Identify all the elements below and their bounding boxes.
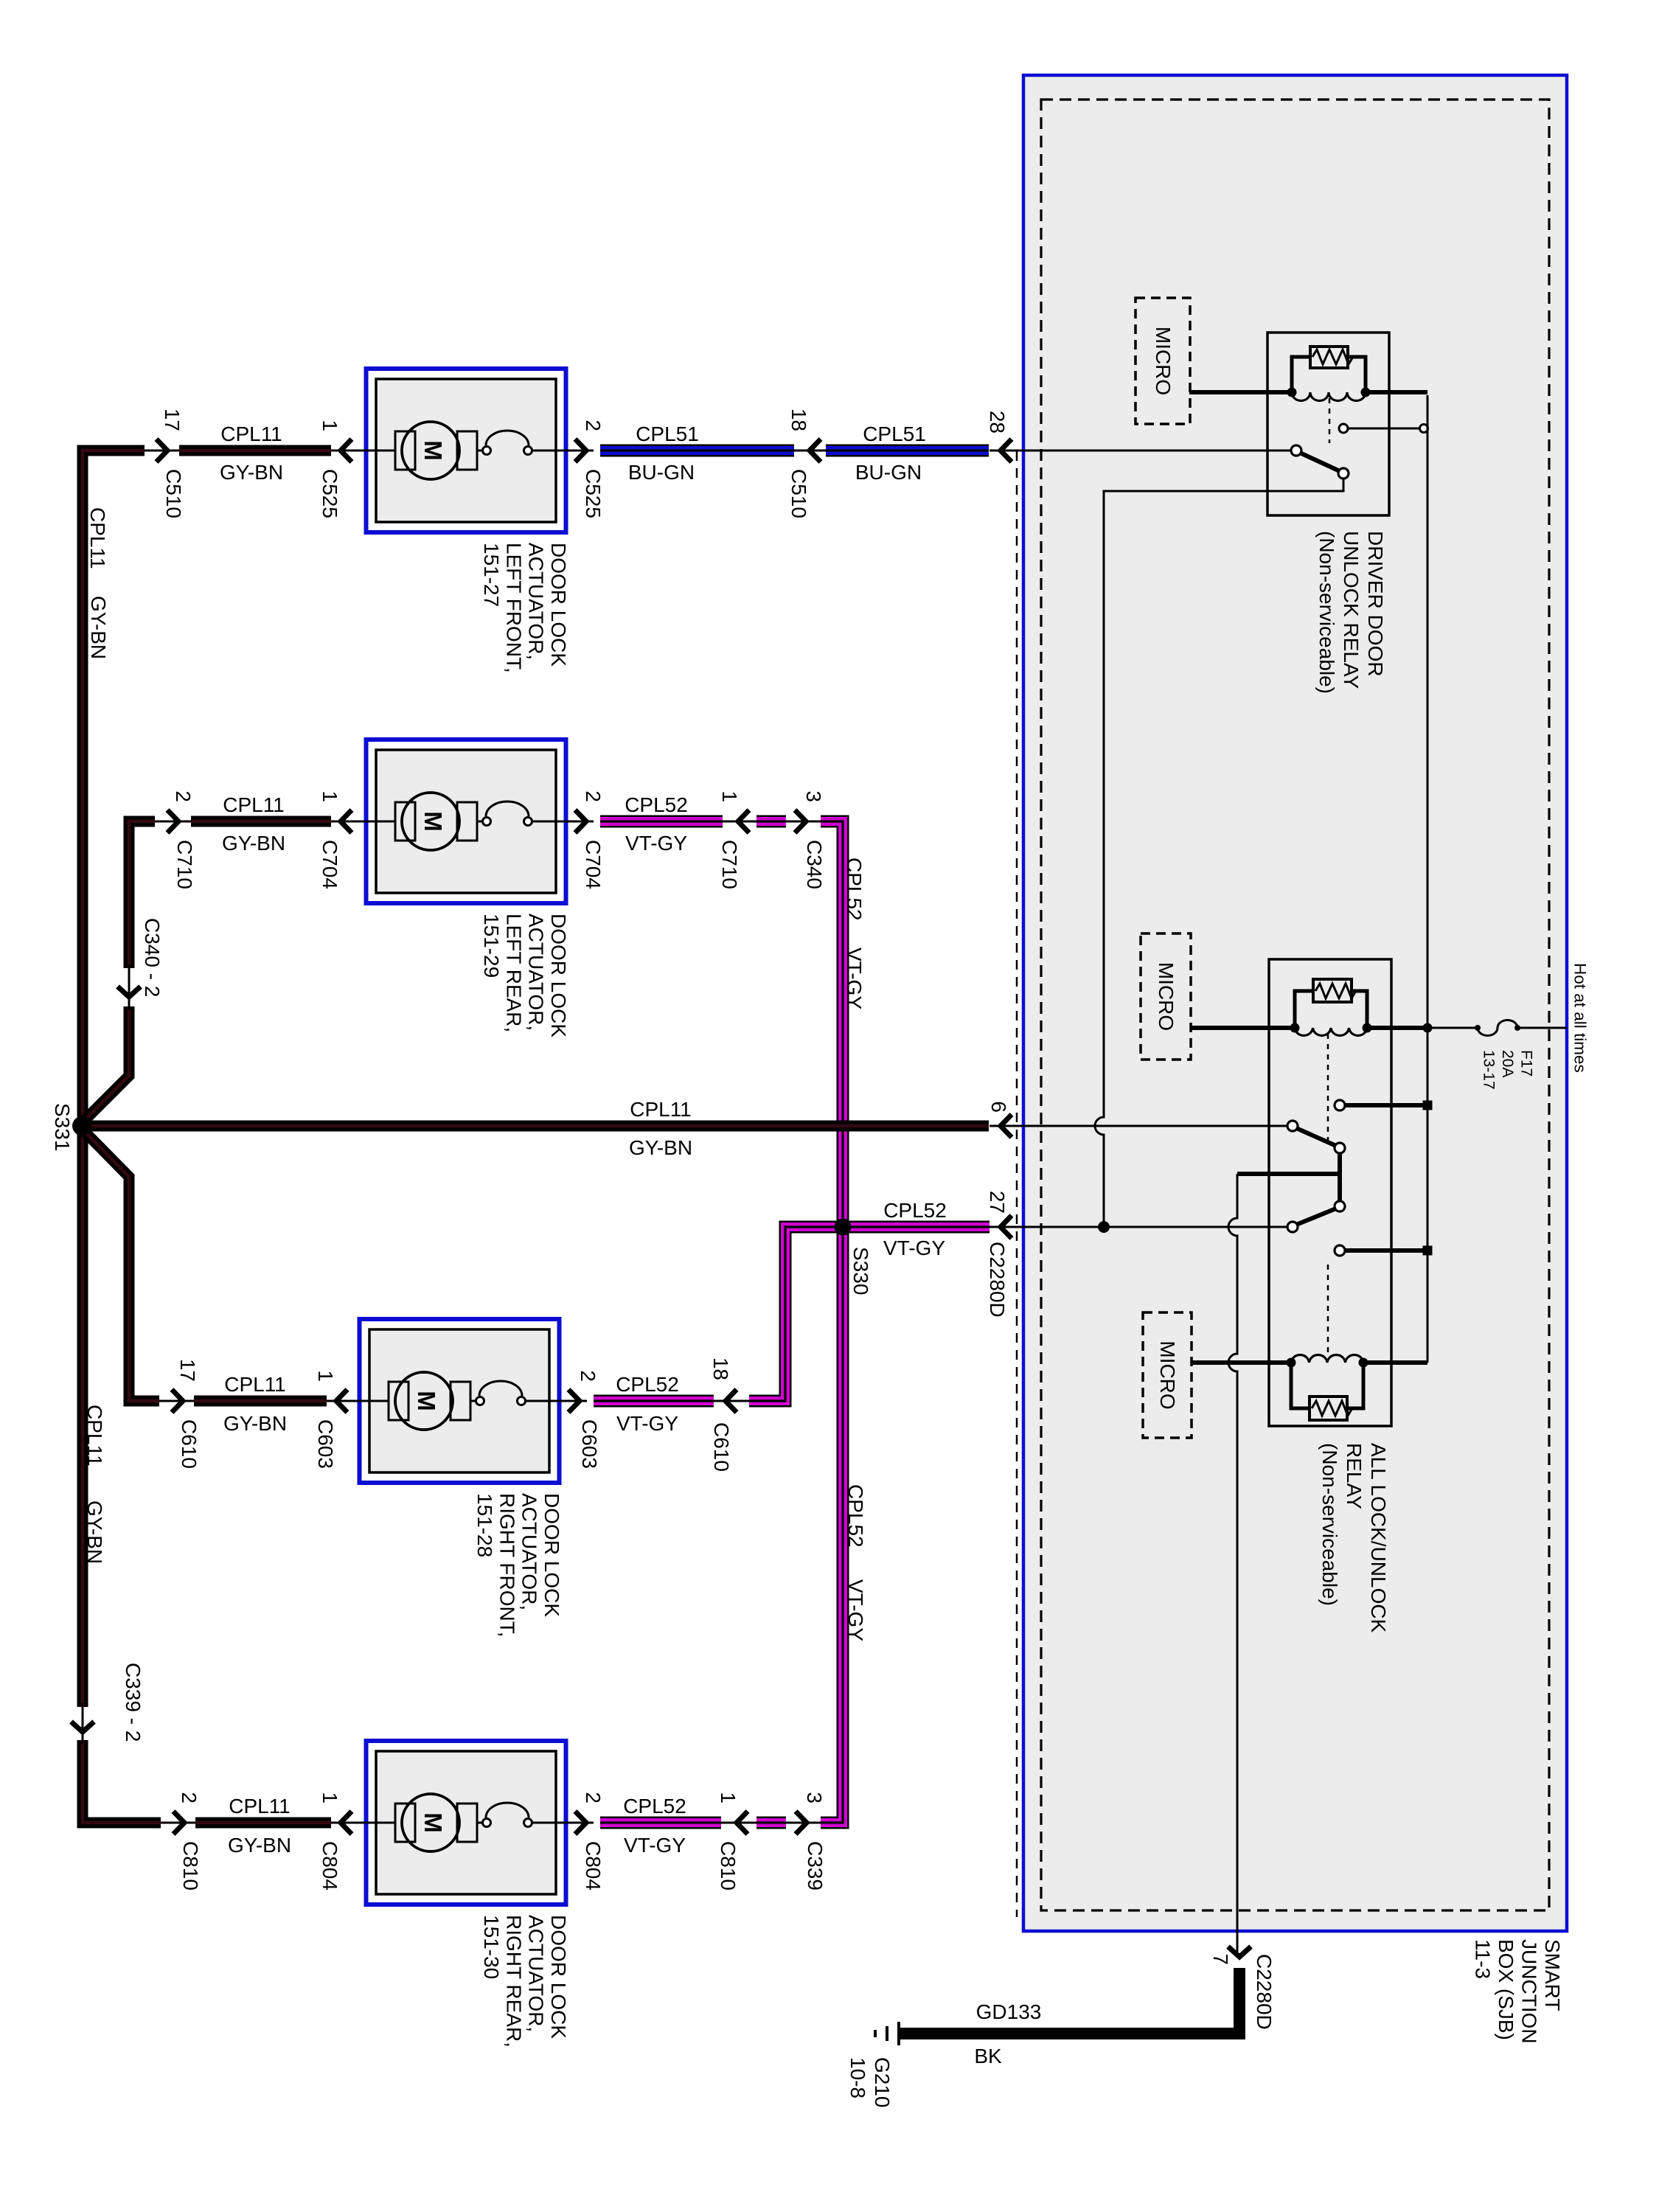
svg-text:VT-GY: VT-GY [843, 947, 866, 1009]
svg-text:LEFT FRONT,: LEFT FRONT, [502, 543, 525, 673]
svg-text:DOOR LOCK: DOOR LOCK [540, 1493, 563, 1617]
svg-text:ACTUATOR,: ACTUATOR, [518, 1493, 541, 1610]
svg-text:2: 2 [582, 790, 605, 802]
svg-text:VT-GY: VT-GY [625, 832, 687, 855]
svg-text:1: 1 [319, 420, 341, 431]
svg-text:SMART: SMART [1541, 1939, 1564, 2011]
svg-text:20A: 20A [1499, 1050, 1516, 1077]
svg-text:M: M [420, 440, 447, 461]
svg-text:VT-GY: VT-GY [616, 1412, 678, 1435]
svg-text:3: 3 [803, 1792, 826, 1804]
svg-text:C510: C510 [787, 469, 810, 518]
svg-text:C710: C710 [173, 840, 196, 889]
svg-text:C340: C340 [803, 840, 826, 889]
svg-text:C525: C525 [319, 469, 341, 518]
svg-text:DOOR LOCK: DOOR LOCK [547, 1915, 570, 2039]
svg-text:ACTUATOR,: ACTUATOR, [525, 914, 548, 1031]
svg-text:C804: C804 [582, 1841, 605, 1891]
svg-text:DOOR LOCK: DOOR LOCK [547, 914, 570, 1037]
svg-text:GD133: GD133 [976, 2000, 1042, 2023]
svg-text:CPL52: CPL52 [623, 1795, 686, 1818]
svg-text:C603: C603 [578, 1419, 601, 1469]
svg-text:VT-GY: VT-GY [844, 1579, 867, 1641]
svg-text:2: 2 [172, 790, 195, 802]
svg-text:1: 1 [319, 1792, 341, 1804]
svg-text:151-27: 151-27 [480, 543, 503, 607]
svg-text:DRIVER DOOR: DRIVER DOOR [1364, 531, 1387, 677]
svg-text:C2280D: C2280D [1253, 1954, 1276, 2030]
svg-text:C704: C704 [582, 840, 605, 889]
svg-text:LEFT REAR,: LEFT REAR, [502, 914, 525, 1032]
svg-text:CPL11: CPL11 [223, 793, 285, 816]
svg-text:C339 - 2: C339 - 2 [122, 1663, 145, 1742]
svg-text:CPL52: CPL52 [616, 1373, 679, 1396]
svg-text:2: 2 [178, 1792, 201, 1804]
svg-text:ACTUATOR,: ACTUATOR, [525, 543, 548, 660]
svg-text:CPL11: CPL11 [220, 422, 282, 445]
svg-text:S331: S331 [51, 1103, 74, 1151]
svg-text:BU-GN: BU-GN [628, 461, 695, 484]
svg-text:GY-BN: GY-BN [87, 596, 110, 659]
svg-text:151-30: 151-30 [480, 1915, 503, 1979]
svg-text:JUNCTION: JUNCTION [1518, 1939, 1541, 2044]
svg-text:C603: C603 [314, 1419, 337, 1469]
svg-text:ACTUATOR,: ACTUATOR, [525, 1915, 548, 2032]
svg-text:MICRO: MICRO [1156, 1340, 1179, 1409]
svg-text:VT-GY: VT-GY [624, 1834, 686, 1857]
svg-text:3: 3 [802, 790, 825, 802]
svg-text:GY-BN: GY-BN [222, 832, 285, 855]
svg-text:GY-BN: GY-BN [83, 1500, 106, 1564]
svg-text:C704: C704 [319, 840, 341, 889]
svg-text:(Non-serviceable): (Non-serviceable) [1315, 531, 1338, 694]
svg-text:MICRO: MICRO [1155, 962, 1178, 1031]
svg-text:2: 2 [582, 420, 605, 431]
svg-text:1: 1 [718, 790, 741, 802]
svg-text:F17: F17 [1518, 1050, 1535, 1077]
svg-text:11-3: 11-3 [1472, 1939, 1495, 1979]
svg-text:CPL52: CPL52 [625, 793, 688, 816]
svg-text:1: 1 [314, 1370, 337, 1382]
svg-text:27: 27 [986, 1191, 1009, 1214]
svg-text:C525: C525 [582, 469, 605, 518]
svg-text:18: 18 [787, 408, 810, 431]
svg-text:GY-BN: GY-BN [228, 1834, 291, 1857]
svg-text:GY-BN: GY-BN [220, 461, 283, 484]
svg-text:C2280D: C2280D [986, 1242, 1009, 1318]
svg-text:6: 6 [987, 1101, 1010, 1113]
svg-text:7: 7 [1209, 1953, 1232, 1965]
svg-text:ALL LOCK/UNLOCK: ALL LOCK/UNLOCK [1367, 1443, 1390, 1633]
svg-text:GY-BN: GY-BN [629, 1136, 692, 1159]
svg-text:UNLOCK RELAY: UNLOCK RELAY [1340, 531, 1363, 689]
svg-text:C340 - 2: C340 - 2 [141, 918, 164, 997]
svg-text:17: 17 [161, 408, 184, 431]
svg-text:C810: C810 [717, 1841, 740, 1891]
svg-text:C810: C810 [179, 1841, 202, 1891]
svg-text:CPL52: CPL52 [883, 1199, 947, 1222]
svg-text:M: M [420, 811, 447, 832]
svg-text:CPL52: CPL52 [844, 1484, 867, 1548]
svg-text:10-8: 10-8 [846, 2057, 869, 2098]
svg-text:CPL11: CPL11 [229, 1795, 291, 1818]
svg-text:1: 1 [319, 790, 341, 802]
svg-text:VT-GY: VT-GY [883, 1237, 945, 1259]
svg-text:13-17: 13-17 [1481, 1050, 1498, 1090]
svg-text:C510: C510 [162, 469, 185, 518]
svg-text:DOOR LOCK: DOOR LOCK [547, 543, 570, 667]
svg-text:Hot at all times: Hot at all times [1571, 963, 1590, 1073]
svg-text:BK: BK [974, 2045, 1002, 2067]
svg-text:18: 18 [709, 1357, 732, 1380]
svg-text:1: 1 [717, 1792, 740, 1804]
svg-text:C804: C804 [319, 1841, 341, 1891]
svg-text:28: 28 [986, 411, 1009, 434]
svg-text:S330: S330 [849, 1247, 872, 1295]
svg-text:C339: C339 [804, 1841, 827, 1891]
svg-text:GY-BN: GY-BN [223, 1412, 287, 1435]
svg-text:BOX (SJB): BOX (SJB) [1495, 1939, 1517, 2040]
svg-text:CPL51: CPL51 [636, 422, 699, 445]
svg-text:2: 2 [582, 1792, 605, 1804]
svg-text:CPL11: CPL11 [83, 1405, 106, 1467]
svg-text:C610: C610 [710, 1422, 733, 1472]
svg-text:RIGHT REAR,: RIGHT REAR, [502, 1915, 525, 2048]
svg-text:G210: G210 [871, 2057, 894, 2108]
svg-text:2: 2 [577, 1370, 599, 1382]
svg-text:(Non-serviceable): (Non-serviceable) [1318, 1443, 1341, 1606]
svg-text:M: M [413, 1391, 440, 1411]
svg-text:BU-GN: BU-GN [855, 461, 922, 484]
svg-text:CPL52: CPL52 [843, 858, 866, 921]
svg-text:MICRO: MICRO [1152, 327, 1175, 395]
svg-text:CPL11: CPL11 [630, 1098, 692, 1121]
svg-text:C610: C610 [178, 1419, 201, 1469]
svg-text:C710: C710 [718, 840, 741, 889]
svg-text:151-29: 151-29 [480, 914, 503, 978]
svg-text:CPL11: CPL11 [86, 507, 109, 569]
svg-text:M: M [420, 1812, 447, 1833]
svg-text:CPL11: CPL11 [224, 1373, 286, 1396]
svg-text:RIGHT FRONT,: RIGHT FRONT, [495, 1493, 518, 1637]
svg-text:17: 17 [176, 1359, 199, 1382]
svg-text:CPL51: CPL51 [863, 422, 926, 445]
svg-text:RELAY: RELAY [1343, 1443, 1366, 1509]
svg-text:151-28: 151-28 [473, 1493, 496, 1557]
